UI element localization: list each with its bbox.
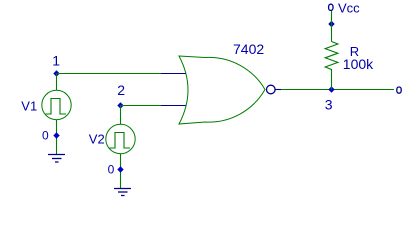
svg-text:V1: V1	[21, 99, 37, 114]
resistor R 100k	[325, 42, 338, 90]
ground (V1)	[48, 155, 65, 163]
svg-text:Vcc: Vcc	[338, 1, 360, 16]
node 0 junction dot (V2)	[117, 166, 123, 172]
node Vcc junction dot	[328, 21, 334, 27]
svg-text:2: 2	[117, 82, 125, 98]
NOR gate U1 input pin 1	[161, 73, 186, 75]
wire gate output to port	[281, 89, 394, 91]
wire V1 to ground	[56, 120, 58, 155]
NOR gate U1 body	[179, 56, 265, 124]
wire Vcc port to resistor	[331, 11, 333, 42]
wire node2 down to V2	[120, 106, 122, 125]
svg-text:7402: 7402	[233, 41, 264, 57]
svg-text:V2: V2	[89, 131, 105, 146]
pulse source V2	[106, 124, 135, 153]
node 0 junction dot (V1)	[53, 132, 59, 138]
svg-text:100k: 100k	[343, 56, 374, 72]
svg-text:0: 0	[42, 128, 49, 142]
wire node2 to gate input B	[121, 105, 162, 107]
pulse source V1	[42, 90, 71, 119]
node 1 junction dot	[53, 70, 59, 76]
svg-text:0: 0	[108, 163, 115, 177]
NOR gate U1 input pin 2	[161, 105, 186, 107]
NOR gate U1 output pin	[275, 89, 282, 91]
wire node1 down to V1	[56, 74, 58, 91]
node 3 junction dot	[328, 86, 334, 92]
svg-text:3: 3	[325, 97, 333, 113]
wire V2 to ground	[120, 154, 122, 189]
svg-text:1: 1	[52, 53, 60, 69]
output port	[397, 87, 401, 93]
node 2 junction dot	[117, 102, 123, 108]
wire node1 to gate input A	[57, 73, 162, 75]
Vcc port	[329, 4, 333, 10]
ground (V2)	[114, 189, 131, 196]
NOR gate U1 output bubble	[267, 85, 276, 94]
